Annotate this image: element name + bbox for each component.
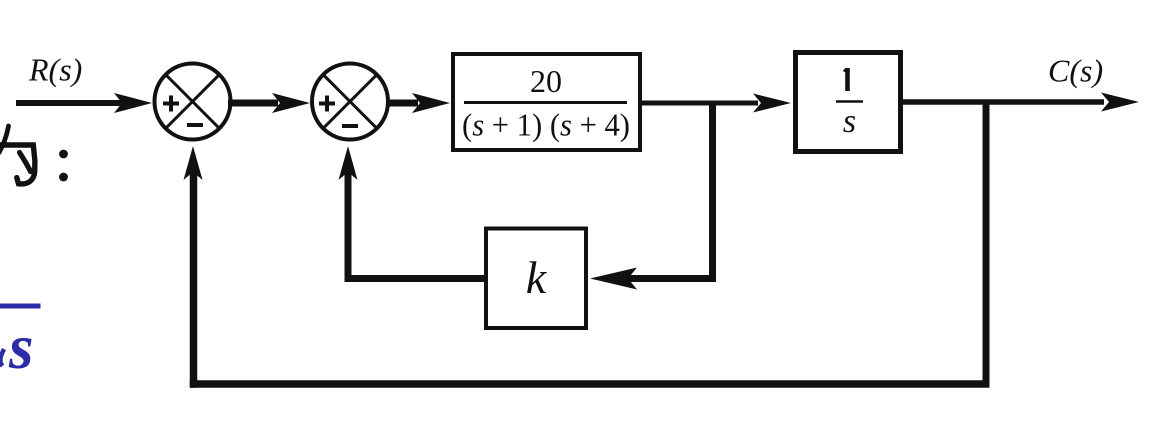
block G2 1/s: [796, 53, 901, 152]
wire H1 to S2 (left then up): [345, 275, 484, 282]
partial Chinese character (wei) at left edge: [0, 126, 35, 184]
svg-text:(s + 1) (s + 4): (s + 1) (s + 4): [462, 107, 630, 143]
wire bottom feedback: [190, 380, 990, 388]
fullwidth colon: [59, 150, 68, 159]
arrowhead into G2: [753, 94, 791, 113]
svg-text:s: s: [8, 312, 34, 382]
node N2 takeoff on output: [983, 102, 990, 388]
svg-text:R(s): R(s): [28, 52, 82, 88]
wire G2 to output: [899, 99, 1104, 105]
minus sign S2: [342, 124, 358, 128]
svg-text:C(s): C(s): [1048, 53, 1103, 89]
blue fraction bar fragment at left: [0, 304, 41, 309]
block H1 k: [486, 229, 586, 329]
minus sign S1: [187, 123, 203, 127]
arrowhead into S2: [272, 93, 310, 113]
plus sign S2: [319, 96, 335, 112]
wire N1 down-left to H1: [626, 275, 716, 282]
arrowhead into G1: [412, 93, 450, 113]
summing junction S1: [155, 64, 231, 140]
svg-text:s: s: [843, 103, 856, 140]
arrowhead up into S2: [339, 146, 358, 180]
wire up to S1: [190, 172, 198, 388]
arrowhead into S1: [114, 93, 152, 113]
arrowhead into H1 (k): [590, 268, 637, 290]
svg-text:20: 20: [530, 63, 562, 99]
output arrowhead: [1101, 93, 1139, 112]
wire S1 to S2: [228, 100, 278, 107]
wire S2 to block G1: [386, 100, 418, 107]
wire G1 to block G2: [642, 101, 758, 106]
G2 numerator 1: [845, 68, 850, 91]
arrowhead up into S1: [184, 146, 203, 180]
node N1 takeoff after G1: [709, 103, 716, 282]
svg-text:k: k: [526, 252, 548, 303]
plus sign S1: [163, 96, 179, 112]
block G1 20/((s+1)(s+4)): [453, 54, 640, 150]
G1 fraction bar: [464, 101, 627, 104]
wire input to summer S1: [16, 100, 122, 106]
G2 fraction bar: [836, 100, 863, 103]
summing junction S2: [312, 64, 388, 140]
